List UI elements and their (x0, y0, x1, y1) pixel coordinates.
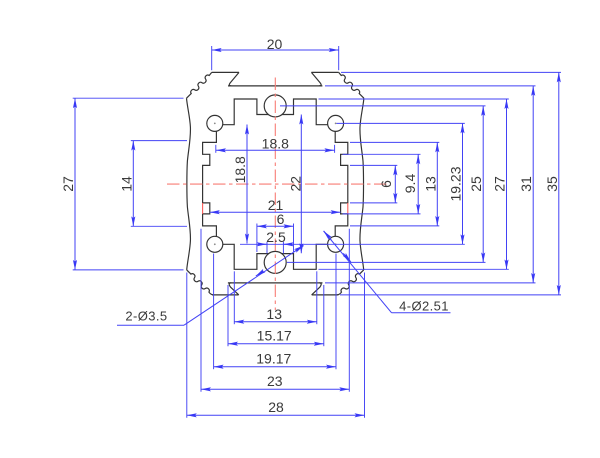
cavity top wall left of center (223, 99, 269, 125)
dim 18.8 vertical (246, 125, 248, 244)
ext tick 18.8h left (215, 145, 217, 153)
dim 15.17 (228, 343, 324, 345)
svg-text:9.4: 9.4 (402, 174, 418, 194)
svg-text:19.23: 19.23 (448, 166, 464, 201)
cavity right wall with jogs (335, 131, 348, 236)
ext top surface right (341, 71, 561, 73)
ext 28 right (364, 273, 366, 418)
ext 20 right (338, 46, 340, 70)
svg-text:18.8: 18.8 (262, 136, 289, 152)
right outer wall (360, 98, 364, 270)
red segment left wall square (202, 203, 204, 214)
leader 2-D3.5 underline (117, 324, 184, 326)
ext 13b right (316, 271, 318, 324)
ext jog 6 top right (350, 164, 397, 166)
ext top boss center right (280, 105, 486, 107)
dim 6 bottom (257, 225, 294, 227)
left outer wall (187, 98, 191, 270)
ext 6b right (293, 224, 295, 253)
hole center dot bottom-left (214, 243, 216, 245)
ext 2.5 left (266, 242, 268, 254)
ext 19.17 left (213, 254, 215, 370)
top slot floor (228, 85, 322, 87)
dim 6 right (394, 165, 396, 203)
svg-text:13: 13 (422, 176, 438, 192)
svg-text:2.5: 2.5 (266, 229, 286, 245)
ext 19.17 right (335, 254, 337, 370)
dim 27 right (506, 99, 508, 270)
top ear right dovetail undercut (311, 72, 321, 86)
hole top-right (328, 115, 344, 131)
svg-text:6: 6 (277, 211, 285, 227)
top left serrated chamfer (187, 72, 212, 98)
ext 23 left (200, 229, 202, 392)
svg-text:31: 31 (518, 176, 534, 192)
dim 2.5 arrow right (284, 243, 293, 245)
bottom left serrated chamfer (187, 270, 214, 295)
dim 21 (210, 211, 341, 213)
ext left 14 bottom (131, 225, 187, 227)
dim 22 (300, 115, 302, 254)
ext top hole row right (337, 122, 465, 124)
svg-text:14: 14 (118, 176, 134, 192)
ext left 27 bottom (73, 269, 184, 271)
vertical centerline (274, 78, 276, 311)
bottom slot ceiling (228, 282, 323, 284)
dim 2.5 arrow left (258, 243, 267, 245)
ext 20 left (211, 46, 213, 70)
ext left 14 top (131, 140, 187, 142)
svg-text:18.8: 18.8 (232, 156, 248, 183)
ext 15.17 right (323, 285, 325, 346)
boss hole top-center (264, 95, 286, 117)
ext bottom boss center right (287, 261, 486, 263)
svg-text:4-Ø2.51: 4-Ø2.51 (399, 299, 449, 314)
leader 4-D2.51 arrow upper (324, 231, 332, 240)
ext bottom surface right (340, 294, 561, 296)
cavity bottom wall left of center (223, 244, 269, 269)
hole center dot bottom-right (335, 243, 337, 245)
svg-text:13: 13 (266, 306, 282, 322)
dim 19.17 (214, 366, 336, 368)
ext bottom hole row (240, 243, 465, 245)
dim 13 right (436, 142, 438, 226)
ext jog 9.4 top right (343, 153, 421, 155)
leader 4-D2.51 shaft (324, 231, 392, 313)
hole center dot top-left (214, 123, 216, 125)
svg-text:25: 25 (468, 176, 484, 192)
boss hole bottom-center (264, 251, 286, 273)
dim 23 (201, 388, 349, 390)
dim 31 (532, 86, 534, 283)
dim 20 (212, 49, 339, 51)
svg-text:6: 6 (378, 180, 394, 188)
svg-text:27: 27 (60, 176, 76, 192)
hole top-left (207, 115, 223, 131)
svg-text:2-Ø3.5: 2-Ø3.5 (125, 309, 167, 324)
dim 28 (187, 414, 365, 416)
svg-text:15.17: 15.17 (257, 328, 292, 344)
bottom left foot lip slant (229, 283, 239, 295)
dim 25 (482, 106, 484, 263)
hole bottom-right (328, 236, 344, 252)
cavity bottom wall right of center (282, 244, 328, 269)
bottom right serrated chamfer (337, 270, 364, 295)
red segment right wall square (347, 203, 349, 214)
dim 18.8 horizontal (216, 149, 334, 151)
ext jog 6 bottom right (350, 202, 397, 204)
ext 28 left (186, 273, 188, 418)
ext bottom slot ceiling right (325, 282, 536, 284)
svg-text:28: 28 (268, 399, 284, 415)
leader 2-D3.5 shaft (184, 246, 304, 326)
horizontal centerline (167, 183, 388, 185)
dim 35 (558, 72, 560, 295)
top ear left dovetail undercut (229, 72, 239, 86)
dim 9.4 (417, 154, 419, 214)
svg-text:19.17: 19.17 (256, 351, 291, 367)
ext tick 18.8h right (334, 145, 336, 153)
ext 23 right (348, 229, 350, 392)
leader 2-D3.5 arrow upper (296, 246, 304, 251)
bottom right foot face (312, 294, 339, 296)
svg-text:35: 35 (544, 176, 560, 192)
leader 4-D2.51 arrow lower (343, 253, 351, 262)
bottom right foot lip slant (312, 283, 322, 295)
dim 14 (132, 141, 134, 227)
svg-text:23: 23 (267, 373, 283, 389)
top ear right surface (311, 71, 338, 73)
svg-text:20: 20 (267, 36, 283, 52)
dim 27 left (74, 98, 76, 270)
cavity top wall right of center (282, 99, 328, 125)
ext cavity bottom wall right (319, 268, 509, 270)
ext jog 13 top right (350, 141, 439, 143)
ext cavity top wall right (319, 98, 509, 100)
top right serrated chamfer (339, 72, 364, 98)
cavity left wall with jogs (203, 131, 217, 236)
ext 6b left (256, 224, 258, 253)
ext 2.5 right (282, 242, 284, 254)
top ear left surface (212, 71, 239, 73)
bottom left foot face (212, 294, 239, 296)
ext 15.17 left (227, 285, 229, 346)
leader 4-D2.51 underline (392, 312, 451, 314)
ext top slot floor right (325, 85, 536, 87)
ext jog 9.4 bottom right (343, 213, 421, 215)
dim 19.23 (462, 123, 464, 244)
leader 2-D3.5 arrow lower (256, 271, 264, 276)
hole center dot top-right (335, 123, 337, 125)
ext jog 13 bottom right (350, 225, 439, 227)
ext left 27 top (73, 97, 184, 99)
ext 13b left (233, 271, 235, 324)
svg-text:22: 22 (287, 176, 303, 192)
hole bottom-left (207, 236, 223, 252)
svg-text:27: 27 (492, 176, 508, 192)
dim 13 bottom (234, 321, 316, 323)
